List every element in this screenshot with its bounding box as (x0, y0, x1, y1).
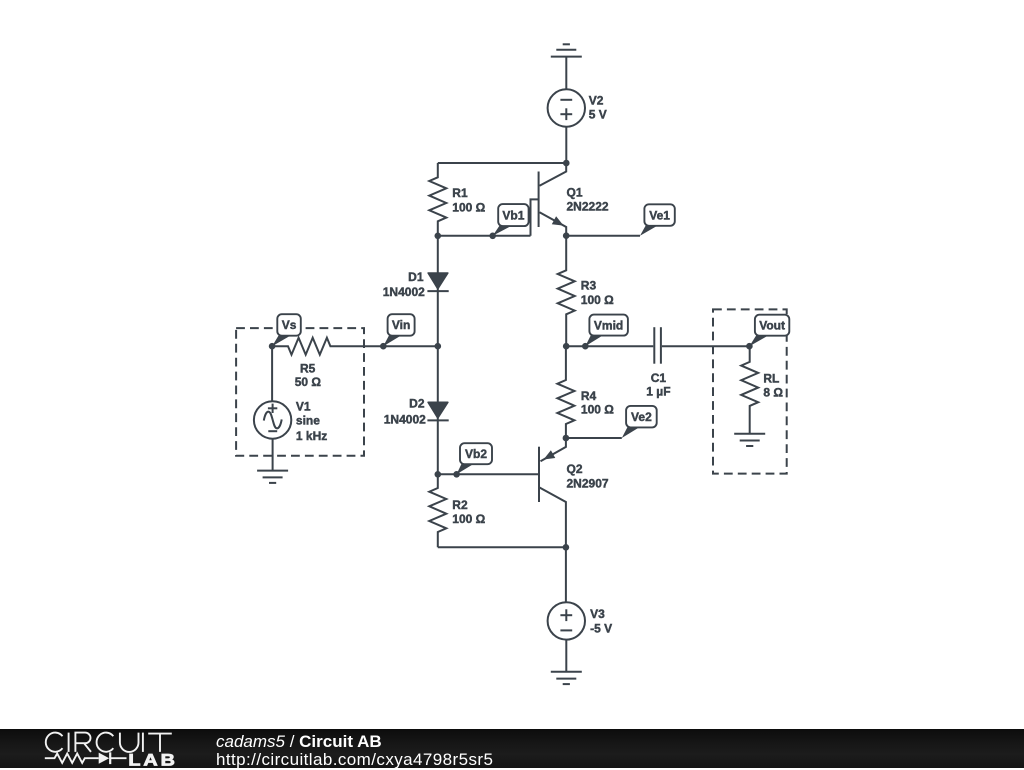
node Q1 emitter/R3/Ve1 (563, 232, 570, 239)
probe region box around V1/R5 (dashed) (236, 328, 364, 456)
svg-text:sine: sine (296, 414, 320, 428)
node Vin attach (380, 343, 387, 350)
resistor R4 (557, 346, 574, 438)
svg-text:V2: V2 (589, 93, 604, 107)
svg-text:100 Ω: 100 Ω (581, 403, 614, 417)
diode D1 1N4002 (428, 273, 448, 289)
svg-text:1 µF: 1 µF (646, 385, 670, 399)
svg-text:Q2: Q2 (567, 462, 583, 476)
wire V2 to node (565, 127, 567, 163)
svg-text:V1: V1 (296, 400, 311, 414)
wire R1 node to Vin node (through D1) (437, 236, 439, 346)
node Vb1 attach (489, 233, 496, 240)
node Vout/RL junction (746, 343, 753, 350)
wire top horizontal to R1 (438, 162, 567, 164)
svg-text:1N4002: 1N4002 (383, 285, 425, 299)
wire Vs node to V1 (271, 346, 273, 401)
svg-text:100 Ω: 100 Ω (581, 293, 614, 307)
diode D2 1N4002 (428, 402, 448, 418)
wire base of Q2 (438, 473, 539, 475)
flag Vs (272, 334, 293, 346)
svg-text:Ve1: Ve1 (649, 208, 670, 222)
node Vs attach (269, 343, 276, 350)
svg-text:100 Ω: 100 Ω (452, 200, 485, 214)
svg-text:Vmid: Vmid (594, 318, 623, 332)
flag Vout (749, 334, 770, 346)
resistor R3 (558, 236, 575, 347)
flag Vb1 (493, 225, 514, 236)
wire Ve2 (566, 437, 622, 439)
svg-text:RL: RL (763, 371, 779, 385)
CircuitLab logo text CIRCUIT (46, 733, 63, 752)
svg-text:Vin: Vin (392, 318, 410, 332)
transistor Q2 2N2907 (538, 447, 540, 502)
wire Vb1 node horizontal (438, 235, 531, 237)
node V2/R1/Q1-collector (563, 160, 570, 167)
svg-text:R5: R5 (300, 362, 316, 376)
flag Vin (383, 334, 403, 346)
svg-text:Ve2: Ve2 (631, 410, 652, 424)
svg-text:V3: V3 (590, 607, 605, 621)
flag Ve1 (640, 224, 660, 235)
node D1/D2/R5 junction (435, 343, 442, 350)
svg-text:C1: C1 (651, 371, 667, 385)
svg-text:Q1: Q1 (567, 185, 583, 199)
resistor R2 (429, 474, 446, 547)
flag Vmid (585, 334, 605, 346)
ground (below RL) (734, 433, 765, 435)
svg-text:R4: R4 (581, 389, 597, 403)
wire V1 to ground (272, 439, 274, 471)
svg-text:Vout: Vout (759, 319, 785, 333)
wire emitter Q1 to Ve1 (566, 235, 640, 237)
wire ground to V2 (565, 57, 567, 90)
svg-text:D1: D1 (408, 270, 424, 284)
svg-text:R1: R1 (452, 186, 468, 200)
svg-text:1 kHz: 1 kHz (296, 429, 327, 443)
svg-text:2N2907: 2N2907 (567, 476, 609, 490)
flag Ve2 (622, 426, 642, 438)
svg-text:100 Ω: 100 Ω (452, 512, 485, 526)
footer bar (0, 729, 1024, 768)
svg-text:8 Ω: 8 Ω (763, 385, 783, 399)
footer title: cadams5 / Circuit AB (216, 732, 382, 752)
node R3/R4/Vmid junction (563, 343, 570, 350)
probe region box around RL (dashed) (713, 309, 787, 473)
wire base lead of Q1 (531, 199, 539, 235)
svg-text:5 V: 5 V (589, 108, 607, 122)
resistor R5 (272, 338, 438, 355)
ground (top, above V2) (551, 56, 582, 58)
logo resistor-diode glyph (45, 754, 99, 763)
wire collector Q2 to V3 (565, 547, 567, 602)
svg-text:D2: D2 (409, 397, 425, 411)
wire Vin node to Vb2 node (through D2) (437, 346, 439, 474)
wire V3 to ground (565, 640, 567, 672)
node Q2 collector/R2/V3 (563, 544, 570, 551)
svg-text:Vb1: Vb1 (502, 208, 524, 222)
voltage source V2 (548, 89, 585, 126)
svg-text:50 Ω: 50 Ω (295, 375, 322, 389)
wire node to C1 (566, 345, 653, 347)
resistor RL (741, 346, 758, 434)
svg-text:1N4002: 1N4002 (384, 412, 426, 426)
svg-text:2N2222: 2N2222 (567, 200, 609, 214)
ground (below V3) (551, 671, 582, 673)
wire bottom horizontal (438, 546, 566, 548)
ground (below V1) (257, 470, 288, 472)
voltage source V3 (548, 602, 585, 639)
svg-text:Vs: Vs (282, 318, 297, 332)
flag Vb2 (457, 463, 476, 475)
svg-text:Vb2: Vb2 (465, 447, 487, 461)
transistor Q1 2N2222 (538, 172, 540, 228)
node R4/Q2 emitter/Ve2 (563, 435, 570, 442)
svg-text:-5 V: -5 V (590, 622, 612, 636)
resistor R1 (429, 163, 446, 236)
capacitor C1 (653, 327, 655, 364)
svg-text:R2: R2 (452, 498, 468, 512)
node Vmid attach (582, 343, 589, 350)
svg-text:R3: R3 (581, 279, 597, 293)
node D2/R2/Q2-base junction (435, 471, 442, 478)
voltage source V1 (sine) (254, 401, 291, 438)
node Vb2 attach (453, 471, 460, 478)
wire C1 to Vout node (662, 345, 750, 347)
node R1/D1/Vb1 wire (435, 233, 442, 240)
footer url (216, 750, 493, 770)
